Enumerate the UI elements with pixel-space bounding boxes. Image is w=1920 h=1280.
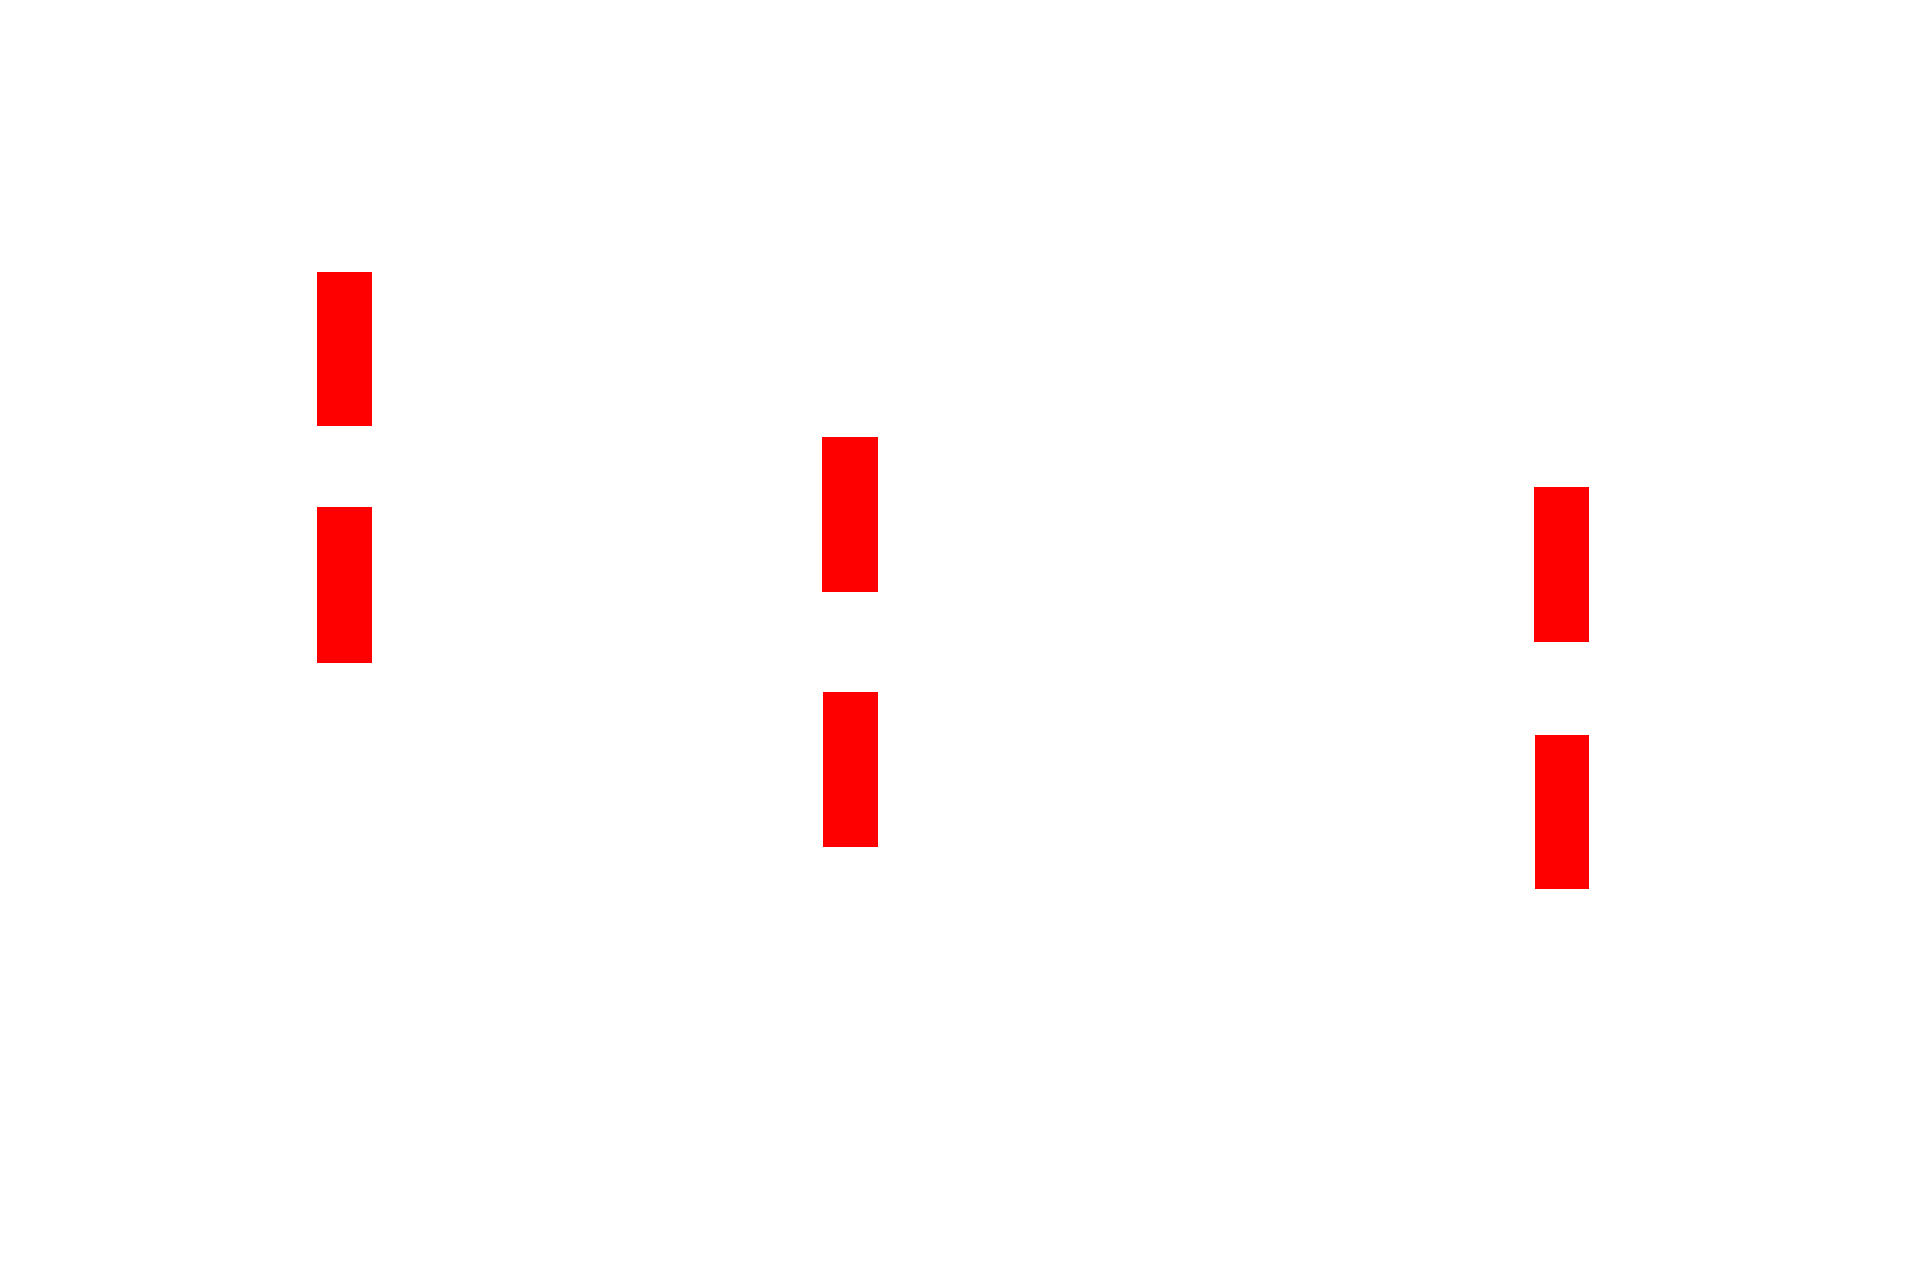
- red marker bar 1 (left column, upper): [317, 272, 372, 426]
- red marker bar 4 (middle column, lower): [823, 692, 879, 847]
- red marker bar 2 (left column, lower): [317, 507, 372, 663]
- red marker bar 5 (right column, upper): [1534, 487, 1589, 642]
- red marker bar 3 (middle column, upper): [822, 437, 878, 592]
- red marker bar 6 (right column, lower): [1535, 735, 1590, 889]
